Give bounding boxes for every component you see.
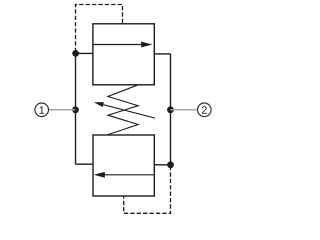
- wire: right vertical: [170, 54, 172, 165]
- port 2 label "2": [202, 106, 207, 113]
- valve body top (rectangle): [93, 24, 154, 85]
- valve body bottom (rectangle): [93, 135, 154, 196]
- junction dot right-middle: [167, 106, 174, 113]
- adjustment arrow across spring (points up-left): [103, 105, 155, 118]
- port lead 1 (gray): [48, 109, 75, 111]
- wire: top-left into body: [76, 52, 93, 54]
- flow arrow in top body (points right): [94, 44, 143, 46]
- wire: left vertical: [75, 53, 77, 164]
- pilot line top (dashed): [76, 5, 123, 53]
- port 2 circle: [198, 103, 212, 117]
- junction dot left-middle: [72, 106, 79, 113]
- junction dot top-left: [72, 50, 79, 57]
- pilot line bottom (dashed): [124, 166, 171, 213]
- port lead 2 (gray): [171, 109, 198, 111]
- wire: bottom-right into body: [154, 164, 170, 166]
- junction dot bottom-right: [167, 161, 174, 168]
- port 1 circle: [35, 103, 49, 117]
- spring (zigzag) between bodies: [108, 85, 138, 135]
- wire: top-right from body: [154, 53, 170, 55]
- flow arrow in bottom body (points left): [105, 174, 154, 176]
- wire: bottom-left into body: [76, 163, 94, 165]
- port 1 label "1": [40, 106, 45, 113]
